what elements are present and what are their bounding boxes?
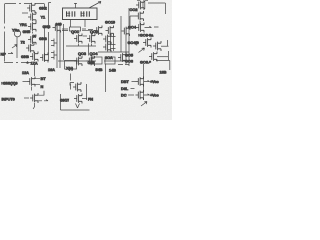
svg-text:QO1: QO1 <box>71 29 80 34</box>
center cross wire <box>66 44 96 47</box>
wire left of QN1 <box>22 12 28 14</box>
svg-text:↑GO6·9a: ↑GO6·9a <box>138 33 154 38</box>
svg-text:12A: 12A <box>22 70 29 75</box>
up arrow bottom border <box>26 61 29 64</box>
transistor R2 <box>136 11 144 21</box>
svg-text:D6L: D6L <box>121 86 129 91</box>
svg-text:↑GN9(X)0: ↑GN9(X)0 <box>1 81 18 86</box>
svg-text:GN5: GN5 <box>23 29 32 34</box>
transistor QN5 <box>28 35 36 45</box>
svg-text:FN: FN <box>88 97 93 102</box>
svg-text:BT: BT <box>41 76 47 81</box>
svg-text:QO4: QO4 <box>90 51 99 56</box>
left column device a <box>51 39 57 47</box>
bus FET c <box>122 26 130 36</box>
B1 pair marks 4 <box>86 11 90 16</box>
transistor R3 <box>136 23 144 33</box>
svg-text:14B: 14B <box>109 68 116 73</box>
FET under y52 <box>118 53 126 63</box>
transistor QN8 <box>40 53 48 63</box>
svg-text:GN2: GN2 <box>39 6 48 11</box>
svg-text:2OA: 2OA <box>105 55 113 60</box>
transistor QN6 <box>26 43 34 53</box>
ladder rungs <box>111 37 116 49</box>
vertical wire left bottom <box>34 65 36 77</box>
vertical wire left mid <box>16 37 18 58</box>
down arrow mark in B2 <box>76 104 80 109</box>
svg-text:GN3: GN3 <box>43 24 52 29</box>
svg-text:GO5: GO5 <box>125 53 134 58</box>
svg-text:GO19: GO19 <box>105 19 116 24</box>
svg-text:YRa: YRa <box>12 28 20 33</box>
B2 box bottom <box>61 109 90 111</box>
B2 right vertical <box>86 84 88 100</box>
transistor QX1 <box>53 23 61 33</box>
ladder FET b <box>103 42 111 52</box>
wire R2 down <box>139 21 141 25</box>
dash border segment right of center <box>118 64 129 66</box>
right block vertical wire <box>143 64 145 100</box>
svg-text:GN8: GN8 <box>21 54 30 59</box>
FN arrow <box>82 98 87 100</box>
svg-text:X(a): X(a) <box>66 66 74 71</box>
svg-text:GO4(9: GO4(9 <box>128 40 140 45</box>
bus box under B1 <box>70 27 81 31</box>
transistor QO4 <box>87 56 95 66</box>
bus dashes right <box>82 29 93 31</box>
mid horizontal wire y52 <box>98 51 129 53</box>
svg-text:GO8↗: GO8↗ <box>140 60 151 65</box>
top right corner wire <box>148 3 165 14</box>
right border vertical <box>168 40 169 60</box>
left block dashed border top <box>5 3 44 5</box>
input arrow left edge <box>8 52 13 53</box>
transistor QB2 <box>30 93 38 103</box>
diag arrow below R8 <box>141 102 147 107</box>
marks above R1 <box>137 1 148 9</box>
box row box3 <box>105 57 115 64</box>
wire R5 right <box>161 45 169 47</box>
B2 top bracket <box>70 83 74 86</box>
noise rect <box>0 0 172 120</box>
wire R2 left <box>130 16 136 30</box>
diagonal arrow left mid <box>12 45 17 49</box>
transistor R7 <box>136 77 144 87</box>
B2 box left edge <box>60 94 62 110</box>
arrow right of R3 <box>145 26 159 27</box>
+Vo arrow <box>144 94 150 95</box>
svg-text:Y1: Y1 <box>41 15 46 20</box>
left block right border <box>49 3 52 62</box>
center vertical V3 <box>63 24 65 60</box>
bus dashes left <box>62 29 68 31</box>
QB2 arrow right <box>38 100 48 101</box>
wire QB1 leads <box>32 79 40 91</box>
svg-text:X: X <box>33 34 36 39</box>
mark below QB2 <box>33 103 35 109</box>
B2 top transistor <box>73 82 81 92</box>
transistor R4 <box>143 38 151 48</box>
loop device YR2 <box>14 30 20 37</box>
transistor QO1 <box>74 34 82 44</box>
center vertical V1 <box>56 24 58 68</box>
svg-text:QO3: QO3 <box>78 51 87 56</box>
right top transistor R1 <box>136 0 144 10</box>
transistor QO3 <box>74 56 82 66</box>
box row box2 <box>92 57 102 64</box>
svg-text:DC: DC <box>121 93 127 98</box>
B1 pair marks 3 <box>81 11 85 16</box>
svg-text:OO8: OO8 <box>125 59 134 64</box>
B1 pair marks 1 <box>66 11 70 16</box>
wire R6 right <box>157 56 168 58</box>
box row box1 <box>65 61 77 70</box>
B1 pair marks 2 <box>72 11 76 16</box>
wire QO2 down <box>88 44 90 56</box>
svg-text:N: N <box>41 84 44 89</box>
svg-text:GO4: GO4 <box>128 25 137 30</box>
left block dashed border left <box>4 4 6 62</box>
left column device b <box>51 51 57 60</box>
svg-text:349: 349 <box>56 22 63 27</box>
DBT dash <box>132 81 136 83</box>
transistor QN2 <box>27 3 35 13</box>
svg-text:QO2: QO2 <box>90 29 99 34</box>
B1 bottom stubs <box>71 20 86 28</box>
right mid vertical x129 <box>128 8 130 66</box>
diagonal arrow top <box>89 2 101 9</box>
svg-text:YR1: YR1 <box>20 22 28 27</box>
transistor QN7 <box>30 52 38 62</box>
svg-text:+Vcc: +Vcc <box>150 79 160 84</box>
right mid vertical x121 <box>120 16 122 52</box>
svg-text:INPUT0: INPUT0 <box>2 97 15 102</box>
gate dash QB1 <box>23 81 28 83</box>
transistor QO2 <box>87 34 95 44</box>
ladder FET a <box>103 34 111 44</box>
input dash <box>24 97 29 99</box>
wire QN2 top <box>32 3 45 8</box>
svg-text:54B: 54B <box>96 67 103 72</box>
svg-text:19B: 19B <box>160 70 167 75</box>
transistor R5 <box>153 41 161 51</box>
ladder verticals <box>111 34 114 51</box>
svg-text:OO2: OO2 <box>130 7 139 12</box>
svg-text:16A: 16A <box>48 67 55 72</box>
diag arrow mid right <box>139 48 145 53</box>
vertical wire x105 low <box>105 64 107 92</box>
center bottom horizontal <box>58 60 128 62</box>
transistor R8 <box>136 90 144 100</box>
svg-text:+Voс: +Voс <box>150 93 159 98</box>
transistor QB1 <box>27 77 35 87</box>
top center box B1 <box>63 8 98 20</box>
left block dashed border bottom <box>4 62 31 64</box>
left block inner vertical <box>44 28 46 61</box>
center dash vertical low <box>70 74 72 90</box>
bus FET a <box>94 26 102 36</box>
svg-text:NP: NP <box>1 52 7 57</box>
right mid vertical x126 <box>125 34 127 64</box>
transistor R6 <box>149 52 157 62</box>
center vertical V2 <box>59 24 61 68</box>
svg-text:72: 72 <box>21 40 26 45</box>
DC dash <box>128 94 134 96</box>
D6L dash <box>131 88 135 90</box>
wire QN3 down <box>32 32 34 34</box>
wire between QO1 QO2 <box>83 35 87 37</box>
svg-text:GN7/: GN7/ <box>60 98 70 103</box>
svg-text:GN6: GN6 <box>39 36 48 41</box>
+Vcc arrow <box>144 80 150 81</box>
bus FET b <box>106 26 114 36</box>
B1 supply stub plus <box>74 3 77 8</box>
svg-text:DBT: DBT <box>121 79 129 84</box>
transistor QN3 <box>28 22 36 32</box>
B2 inner transistor <box>74 94 82 104</box>
corner wire right low <box>156 61 170 71</box>
QB2 corner wire up <box>38 91 44 96</box>
transistor QN1 <box>28 12 36 22</box>
